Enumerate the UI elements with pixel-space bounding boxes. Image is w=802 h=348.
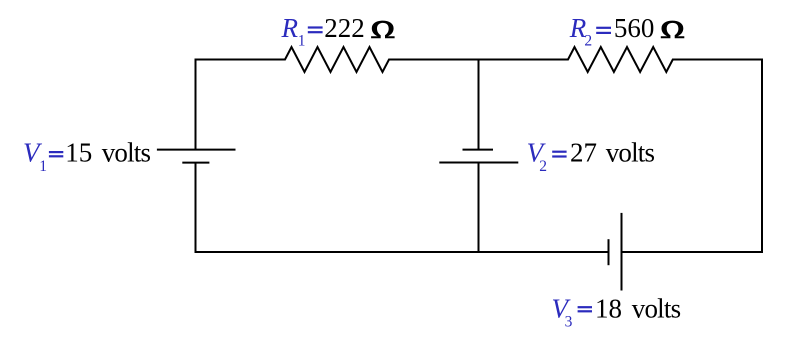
svg-text:R2560: R2560 — [569, 13, 655, 50]
svg-text:V227volts: V227volts — [527, 138, 655, 176]
svg-text:V318volts: V318volts — [552, 294, 682, 331]
svg-text:V115volts: V115volts — [23, 138, 151, 176]
svg-text:R1222: R1222 — [281, 13, 365, 50]
